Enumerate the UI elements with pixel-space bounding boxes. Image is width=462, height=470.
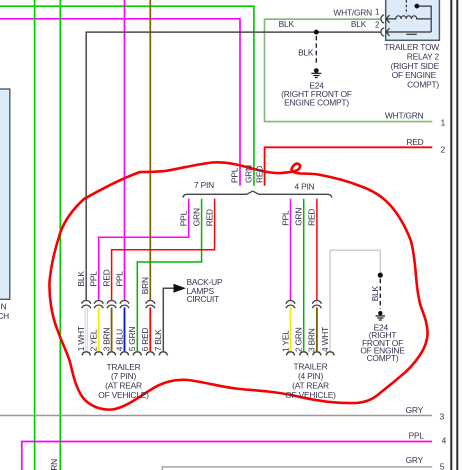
relay internal wire with dot	[417, 6, 431, 32]
svg-text:GRN: GRN	[294, 208, 304, 226]
wire GRN brace to 7pin pin5	[137, 199, 201, 352]
svg-text:GRN: GRN	[243, 165, 253, 183]
svg-text:ENGINE COMPT): ENGINE COMPT)	[284, 97, 349, 107]
relay pin1 arrow	[386, 15, 390, 23]
wire PPL brace to 4pin pin1	[290, 199, 292, 301]
svg-text:3 BRN: 3 BRN	[101, 327, 111, 351]
svg-text:2 GRN: 2 GRN	[294, 327, 304, 352]
wire BLK 7pin pin7 to back-up lamps arrow	[163, 288, 173, 351]
svg-text:2: 2	[375, 21, 380, 30]
red freehand annotation loop	[49, 162, 427, 409]
relay internal dot	[415, 4, 420, 9]
svg-text:5 GRN: 5 GRN	[127, 327, 137, 352]
wire GRN brace to 4pin pin2	[303, 199, 305, 352]
svg-text:5: 5	[440, 461, 445, 470]
wire BRN 4pin pin3 lower	[316, 308, 318, 352]
svg-text:PPL: PPL	[179, 210, 189, 226]
svg-text:BLK: BLK	[351, 19, 367, 29]
wire YEL 7pin pin2 lower	[98, 308, 100, 352]
connector arcs 4pin top (pins 1,3)	[286, 301, 295, 309]
svg-text:TRAILER: TRAILER	[294, 361, 328, 371]
svg-text:CH: CH	[0, 311, 9, 321]
relay box trailer tow relay 2	[386, 0, 440, 40]
wire GRY circuit 3	[0, 415, 432, 417]
wire RED brace to 7pin pin3	[112, 199, 215, 301]
svg-text:1 WHT: 1 WHT	[76, 326, 86, 351]
svg-text:7 PIN: 7 PIN	[194, 180, 214, 190]
svg-text:PPL: PPL	[230, 167, 240, 183]
svg-text:PPL: PPL	[280, 210, 290, 226]
dashed BLK wire to ground E24 right	[379, 279, 381, 309]
svg-text:(4 PIN): (4 PIN)	[298, 371, 324, 381]
svg-text:1: 1	[375, 8, 380, 17]
svg-text:2: 2	[441, 144, 446, 154]
wire GRY circuit 5	[162, 467, 432, 470]
relay dashed armature link	[405, 0, 407, 14]
wire PPL horizontal top to brace	[0, 19, 240, 186]
wire WHT 4pin pin4 to E24 junction	[330, 250, 380, 351]
svg-text:CIRCUIT: CIRCUIT	[187, 294, 220, 304]
svg-text:1 YEL: 1 YEL	[280, 330, 290, 352]
svg-text:GRN: GRN	[191, 208, 201, 226]
relay pin1 female terminal	[381, 15, 384, 23]
wire BRN vertical to 7pin pin6	[149, 0, 151, 301]
svg-text:7 BLK: 7 BLK	[153, 329, 163, 351]
junction dot WHT/BLK	[378, 273, 383, 278]
wire RED 7pin pin6 lower	[149, 308, 151, 352]
wire PPL vertical to 7pin pin4	[124, 0, 126, 301]
svg-text:RED: RED	[204, 209, 214, 226]
connector arcs 7pin top (pins 1,2,3,4,6)	[82, 301, 322, 309]
svg-text:RED: RED	[254, 166, 264, 183]
svg-text:(AT REAR: (AT REAR	[292, 381, 329, 391]
svg-text:4: 4	[442, 436, 447, 446]
svg-text:WHT/GRN: WHT/GRN	[385, 110, 424, 120]
wire GRN horizontal top to brace	[0, 6, 254, 186]
ground E24 left	[311, 68, 321, 77]
component box left (cut off)	[0, 89, 10, 299]
svg-text:1: 1	[441, 118, 446, 128]
svg-text:BLK: BLK	[76, 271, 86, 287]
svg-text:3: 3	[440, 412, 445, 422]
svg-text:PPL: PPL	[89, 271, 99, 287]
wire PPL brace to 7pin pin2	[99, 199, 189, 301]
svg-text:RED: RED	[101, 269, 111, 286]
svg-text:GRN: GRN	[49, 459, 59, 470]
svg-text:4 BLU: 4 BLU	[114, 329, 124, 351]
svg-text:GRY: GRY	[406, 405, 424, 415]
svg-text:COMPT): COMPT)	[367, 353, 399, 363]
arrowhead back-up lamps	[174, 284, 186, 293]
brace 7pin/4pin splice	[183, 191, 332, 198]
connector bottom arcs 7pin	[82, 352, 334, 356]
svg-text:BLK: BLK	[298, 47, 314, 57]
junction dot BLK wire	[314, 30, 319, 35]
wire PPL circuit 4	[22, 442, 432, 470]
relay pin2 arrow	[386, 28, 390, 36]
connector bottom arcs 4pin	[286, 352, 294, 356]
svg-text:3 BRN: 3 BRN	[307, 328, 317, 352]
svg-text:BLK: BLK	[370, 285, 380, 301]
relay switch line pin2	[386, 31, 431, 33]
svg-text:4 WHT: 4 WHT	[320, 327, 330, 352]
wire GRN vertical left 2	[59, 0, 61, 470]
wire WHT 7pin pin1 lower	[85, 308, 88, 352]
svg-text:BRN: BRN	[140, 277, 150, 294]
svg-text:WHT/GRN: WHT/GRN	[333, 8, 372, 18]
svg-text:BLK: BLK	[279, 19, 295, 29]
page border double line	[451, 0, 457, 470]
svg-text:PPL: PPL	[114, 271, 124, 287]
svg-text:OF VEHICLE): OF VEHICLE)	[98, 390, 149, 400]
svg-text:RED: RED	[307, 209, 317, 226]
svg-text:2 YEL: 2 YEL	[89, 329, 99, 351]
wire RED circuit 2 to brace	[265, 147, 433, 185]
ground E24 right	[376, 311, 386, 320]
svg-text:OF VEHICLE): OF VEHICLE)	[285, 390, 336, 400]
wire BRN 7pin pin3 lower	[111, 308, 113, 352]
wire BLK relay pin2 to 7pin pin1	[86, 32, 381, 301]
wire YEL 4pin pin1 lower	[290, 308, 292, 352]
svg-text:GRY: GRY	[406, 455, 424, 465]
wire GRN vertical left 1	[34, 0, 36, 470]
svg-text:PPL: PPL	[409, 431, 425, 441]
svg-text:6 RED: 6 RED	[140, 327, 150, 351]
dashed BLK wire to ground E24	[315, 36, 317, 65]
wire RED brace to 4pin pin3	[316, 199, 318, 301]
wire BLU 7pin pin4 lower	[124, 308, 126, 352]
relay coil	[386, 16, 431, 19]
svg-text:4 PIN: 4 PIN	[295, 182, 315, 192]
relay contact dash	[406, 33, 417, 35]
wire WHT/GRN relay pin1 to circuit 1	[265, 19, 433, 121]
svg-text:RED: RED	[406, 137, 423, 147]
svg-text:COMPT): COMPT)	[407, 80, 439, 90]
relay pin2 female terminal	[381, 28, 384, 36]
